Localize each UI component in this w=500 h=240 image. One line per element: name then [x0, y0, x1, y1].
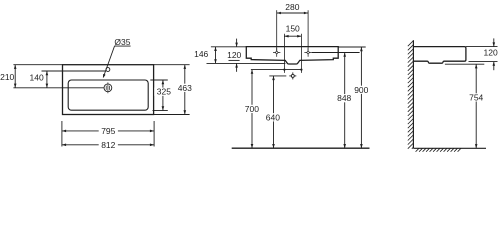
svg-text:146: 146 — [194, 49, 208, 59]
svg-text:325: 325 — [157, 87, 171, 97]
svg-text:120: 120 — [227, 50, 241, 60]
svg-text:140: 140 — [30, 72, 44, 82]
svg-text:900: 900 — [354, 85, 368, 95]
svg-text:700: 700 — [245, 104, 259, 114]
svg-text:150: 150 — [286, 24, 300, 34]
svg-text:754: 754 — [469, 92, 483, 102]
svg-text:210: 210 — [0, 72, 14, 82]
svg-text:795: 795 — [101, 126, 115, 136]
svg-text:Ø35: Ø35 — [114, 37, 130, 47]
svg-text:848: 848 — [337, 93, 351, 103]
svg-text:640: 640 — [266, 112, 280, 122]
svg-text:812: 812 — [101, 140, 115, 150]
svg-text:120: 120 — [484, 47, 498, 57]
svg-text:280: 280 — [285, 2, 299, 12]
svg-text:463: 463 — [178, 83, 192, 93]
